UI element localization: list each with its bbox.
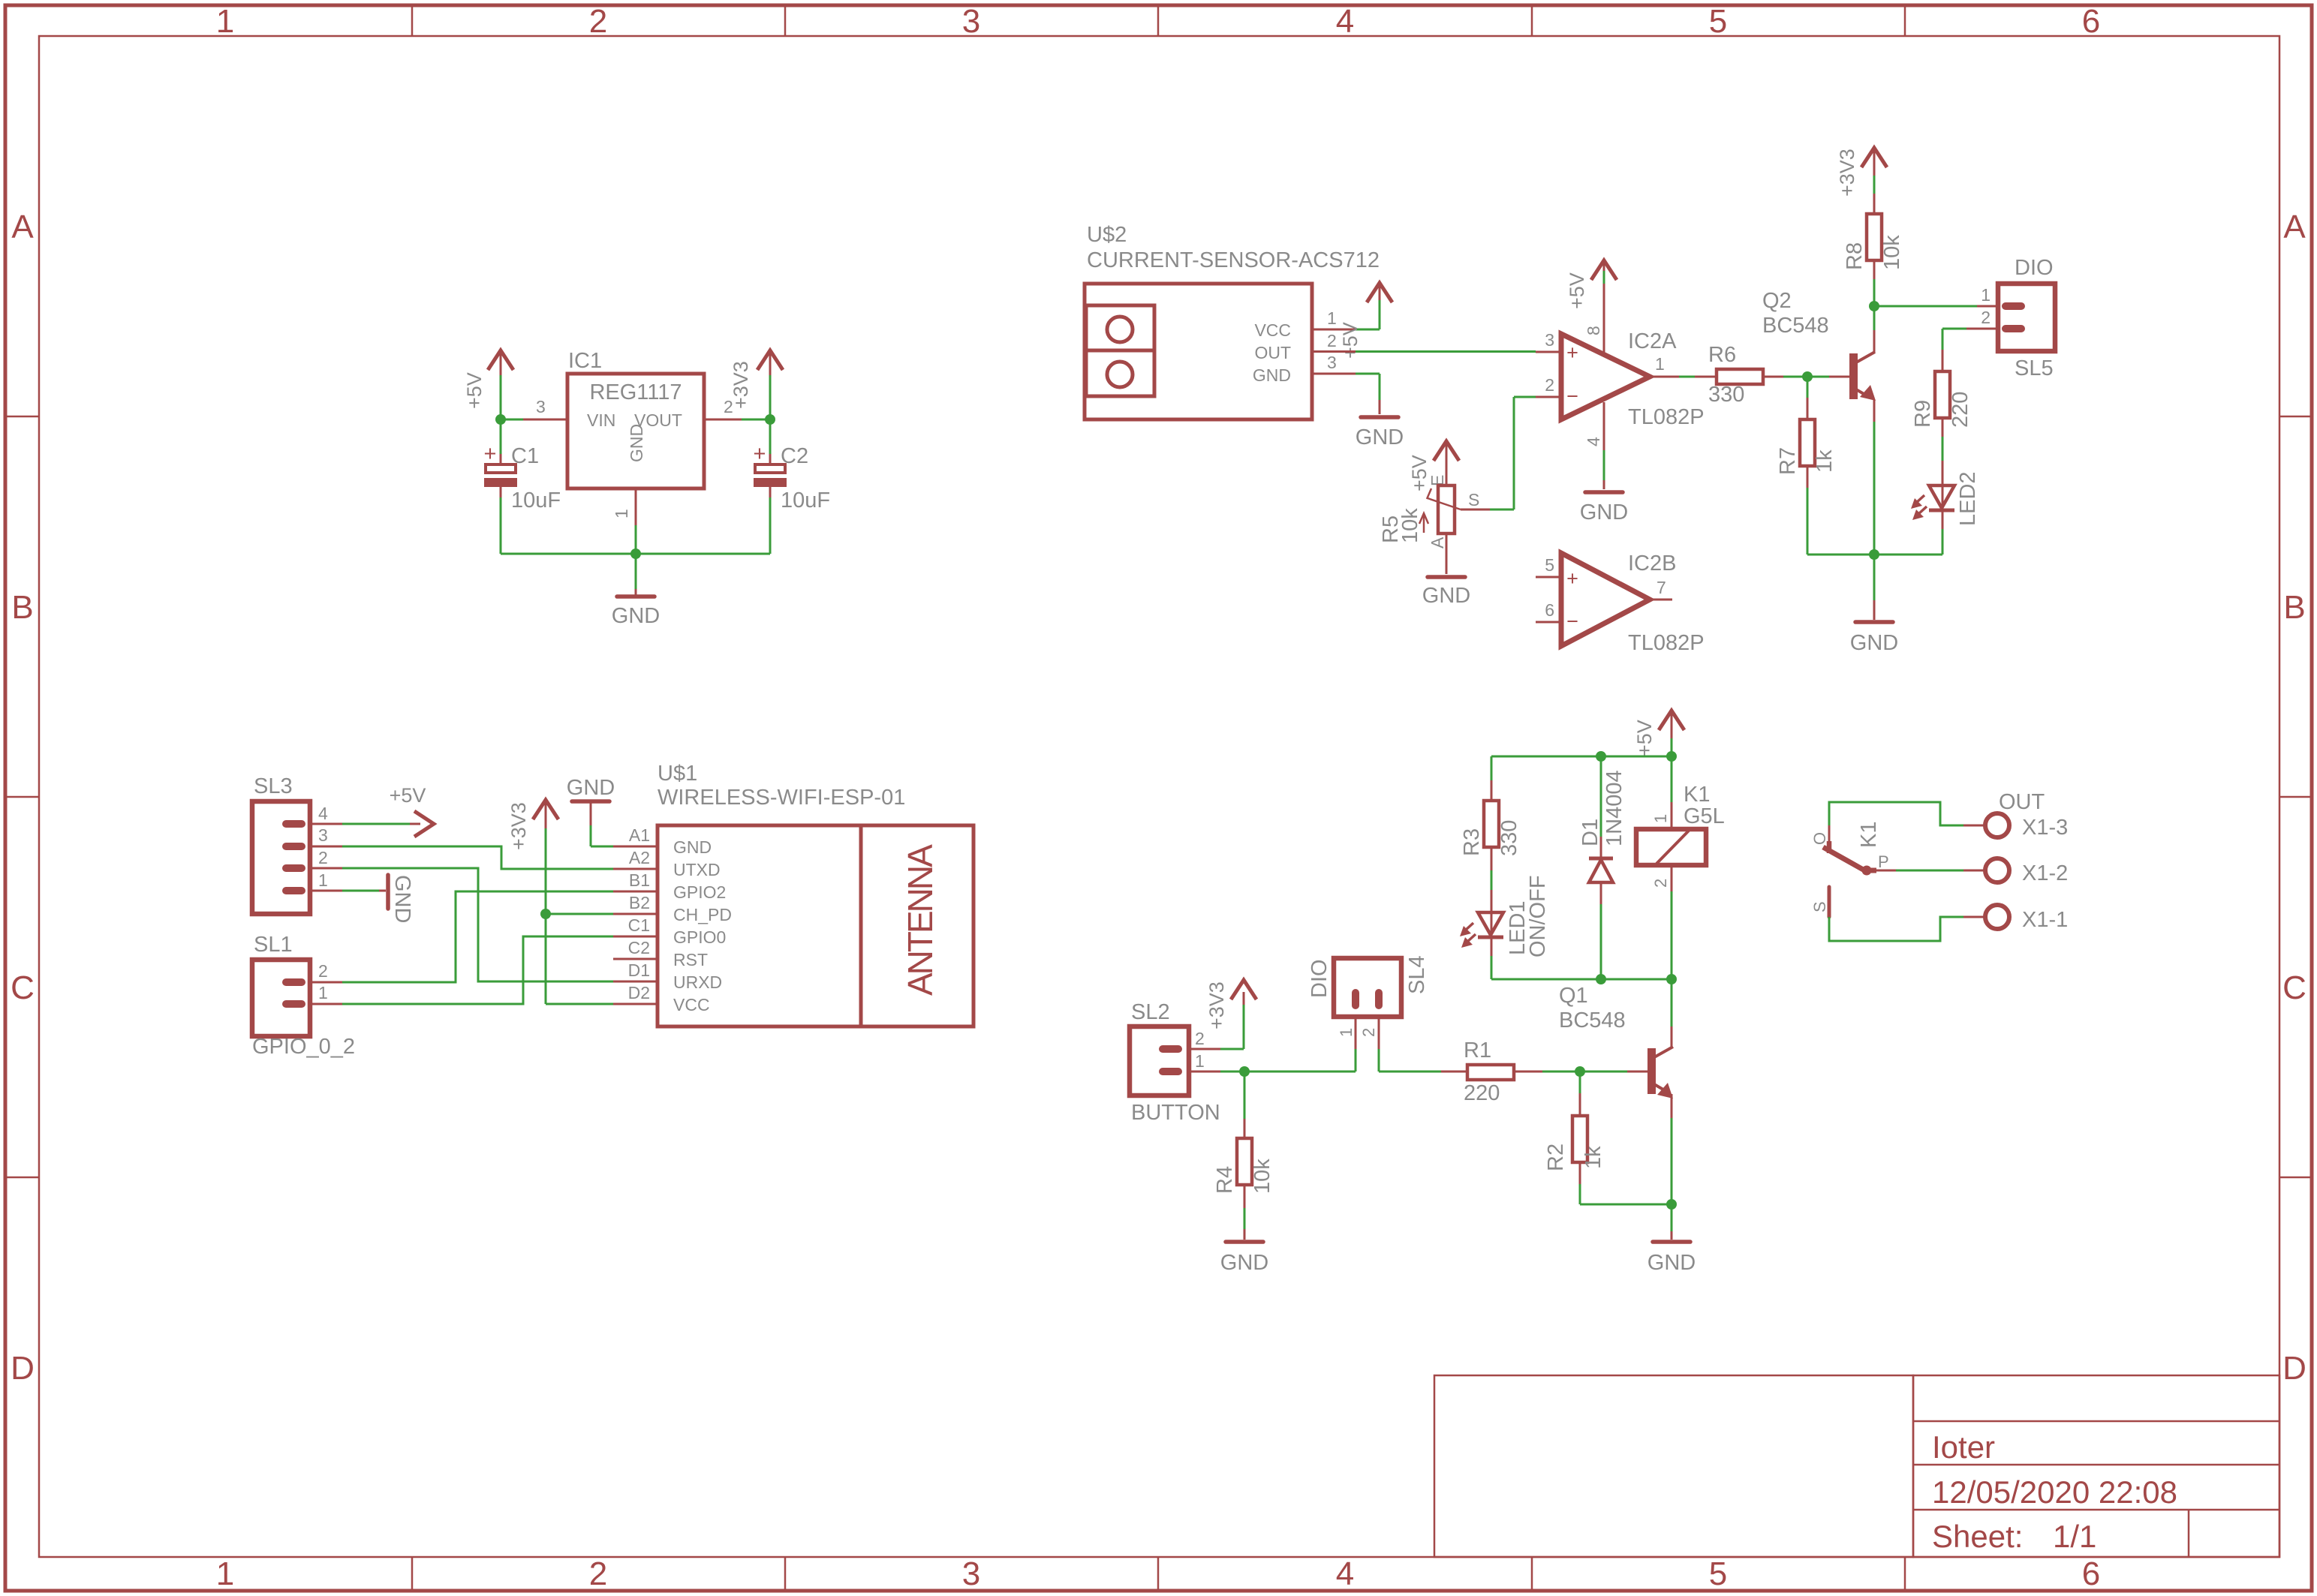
node button net [1239,1066,1250,1077]
ground symbol (IC2A) [1585,490,1623,494]
svg-text:5: 5 [1545,555,1554,575]
diode D1 1N4004 [1589,756,1613,979]
svg-text:GND: GND [627,424,646,462]
node rail/K1 [1666,751,1677,762]
wire SL3 pin4 to +5V arrow [310,823,420,825]
svg-text:B: B [2283,589,2305,626]
svg-text:K1: K1 [1684,783,1710,807]
svg-text:SL1: SL1 [254,933,293,957]
node emitter/R7/LED2 [1869,549,1879,560]
ground symbol (Q1) [1653,1204,1690,1242]
frame column ticks top [412,7,1905,36]
pad X1-3 [1985,813,2009,837]
svg-text:ON/OFF: ON/OFF [1526,875,1550,957]
wire SL4 pin2 down to button net [1378,1017,1380,1072]
svg-text:1N4004: 1N4004 [1602,770,1626,846]
op-amp IC2B triangle [1561,553,1650,646]
LED LED1 [1460,912,1503,979]
wire node to SL5 pin1 [1874,305,1998,308]
wire +5V to node [500,375,502,419]
svg-text:3: 3 [1545,330,1554,350]
op-amp IC2A triangle [1561,334,1650,419]
connector SL3 [252,801,310,914]
pin stub D2 [613,1003,657,1005]
svg-text:2: 2 [1195,1029,1205,1048]
pad X1-1 [1985,905,2009,929]
resistor R7 [1800,377,1815,555]
wire button net to R1 [1244,1071,1356,1073]
pin IC2B 7 stub [1650,599,1672,601]
terminal block of U$2 [1086,305,1154,396]
svg-text:C2: C2 [781,444,808,468]
wire SL3 pin3 to ESP A2 [310,846,613,869]
svg-text:IC2B: IC2B [1628,552,1676,576]
pin stub A1 [613,846,657,848]
svg-text:OUT: OUT [1254,343,1291,362]
svg-text:S: S [1810,901,1829,912]
wire node to Q2 base [1807,376,1849,378]
svg-text:1: 1 [1981,285,1991,305]
pin names GND..VCC [673,837,732,1014]
supply +5V arrow (R5) [1434,441,1459,469]
svg-text:1: 1 [318,870,328,890]
ground symbol (Q2) [1855,555,1893,622]
ground symbol (IC1) [617,554,654,597]
svg-text:+3V3: +3V3 [730,361,752,409]
frame column ticks bottom [412,1557,1905,1589]
svg-text:3: 3 [318,825,328,845]
svg-text:1: 1 [1655,354,1665,374]
svg-text:GND: GND [1422,584,1470,608]
pin stub C2 [613,958,657,960]
svg-text:6: 6 [1545,600,1554,620]
svg-text:GND: GND [1253,365,1291,385]
wire +3V3 to node [769,375,772,419]
svg-text:R4: R4 [1213,1166,1237,1194]
svg-text:10k: 10k [1880,235,1904,270]
node R6/Q2/R7 [1802,371,1813,382]
LED LED2 [1911,485,1954,555]
svg-text:X1-1: X1-1 [2022,908,2068,932]
frame column numbers top [216,3,2100,40]
svg-text:4: 4 [318,804,328,823]
pin IC2B 5 stub [1536,576,1561,579]
svg-text:GPIO_0_2: GPIO_0_2 [252,1035,355,1059]
ground symbol (R4) [1226,1240,1263,1244]
svg-text:UTXD: UTXD [673,860,721,879]
svg-text:2: 2 [1327,331,1337,350]
wire SL2 pin2 to +3V3 [1189,992,1244,1049]
svg-text:330: 330 [1708,383,1744,407]
wire SL4 pin1 down to button net [1355,1017,1357,1072]
svg-text:C2: C2 [628,938,650,957]
resistor R2 [1572,1072,1587,1204]
svg-text:10k: 10k [1398,508,1422,543]
svg-text:2: 2 [589,1555,607,1592]
svg-text:A1: A1 [629,825,650,845]
svg-text:10uF: 10uF [511,488,561,512]
svg-text:1: 1 [1195,1051,1205,1071]
svg-text:SL5: SL5 [2015,356,2054,380]
op IC1 REG1117 box [567,374,704,488]
wire +5V rail [1491,738,1672,756]
wire IC2A pin8 to +5V [1603,263,1605,353]
wire IC1 pin1 down [635,488,637,554]
svg-text:2: 2 [589,3,607,40]
wire node to IC1 pin3 [501,419,567,421]
node R8/Q2/SL5 [1869,301,1879,311]
svg-text:Sheet:: Sheet: [1932,1519,2023,1554]
potentiometer R5 [1419,459,1461,574]
svg-text:A: A [11,209,34,245]
svg-text:4: 4 [1336,3,1354,40]
svg-text:R1: R1 [1464,1038,1491,1062]
pin stub C1 [613,936,657,938]
module U$1 box [657,825,973,1026]
capacitor C1 [484,419,517,554]
resistor R4 [1237,1072,1252,1240]
supply +3V3 arrow (IC1 output) [757,350,783,375]
svg-text:IC1: IC1 [568,349,602,373]
supply +5V arrow (IC2A) [1591,260,1617,280]
wire SL3 pin1 to ground [310,890,386,892]
svg-text:OUT: OUT [1999,790,2045,814]
svg-text:1k: 1k [1813,449,1837,473]
title block frame [1434,1375,2279,1557]
svg-text:3: 3 [1327,353,1337,372]
svg-text:1: 1 [216,1555,234,1592]
resistor R1 [1467,1065,1514,1080]
frame column numbers bottom [216,1555,2100,1592]
svg-text:1: 1 [1327,308,1337,328]
wire SL1 pin2 to ESP B1 [310,891,613,982]
svg-text:3: 3 [962,3,980,40]
svg-text:1: 1 [1337,1028,1356,1037]
svg-text:6: 6 [2082,1555,2100,1592]
svg-text:B2: B2 [629,893,650,912]
svg-text:12/05/2020 22:08: 12/05/2020 22:08 [1932,1474,2177,1510]
resistor R9 [1935,371,1950,485]
node emitter/R2 [1666,1199,1677,1210]
svg-text:GND: GND [1220,1251,1268,1275]
svg-text:220: 220 [1948,392,1972,428]
svg-text:C1: C1 [628,915,650,935]
svg-text:BC548: BC548 [1762,314,1829,338]
node rail/D1 [1596,751,1606,762]
svg-text:GND: GND [1647,1251,1696,1275]
svg-text:DIO: DIO [2015,256,2054,280]
svg-text:+: + [484,442,497,466]
svg-text:+5V: +5V [1633,720,1656,756]
pin stub A2 [613,868,657,870]
wire Q1 emitter down [1671,1118,1673,1204]
svg-text:GND: GND [1580,500,1628,524]
node +3V3/B2 [540,909,551,919]
transistor Q1 BC548 [1647,1026,1673,1118]
supply +3V3 arrow (R8) [1861,148,1887,176]
switch contact O terminal [1829,802,1985,853]
svg-text:10uF: 10uF [781,488,830,512]
wire SL2 pin1 to node [1189,1071,1244,1073]
sensor U$2 box [1085,284,1312,419]
pin designators A1..D2 [628,825,650,1002]
svg-text:VCC: VCC [673,995,710,1014]
wire Q2 emitter down [1873,422,1876,555]
svg-text:GND: GND [1850,631,1898,655]
transistor Q2 BC548 [1849,330,1876,422]
pin stub D1 [613,981,657,983]
svg-text:2: 2 [1651,879,1670,888]
svg-text:CURRENT-SENSOR-ACS712: CURRENT-SENSOR-ACS712 [1087,248,1380,272]
wire LED1 bottom rail [1491,978,1672,981]
svg-text:TL082P: TL082P [1628,405,1705,429]
wire SL4 pin2 net to R1 [1379,1071,1467,1073]
node GND bus [630,549,641,559]
resistor R8 [1867,176,1882,306]
wire R1 to node [1514,1071,1580,1073]
ground symbol (ESP A1, inverted) [572,801,613,846]
wire IC1 pin2 to node [704,419,770,421]
svg-text:BC548: BC548 [1559,1008,1626,1032]
pin IC2B 6 stub [1536,621,1561,624]
wire R2 bottom to emitter node [1580,1204,1672,1206]
svg-text:330: 330 [1497,820,1521,856]
relay K1 coil [1636,756,1706,979]
wire Q2 collector to node R8 [1873,306,1876,330]
svg-text:+5V: +5V [463,372,486,409]
svg-text:D1: D1 [1578,819,1602,846]
svg-text:C1: C1 [511,444,539,468]
pin stub B2 [613,913,657,915]
connector SL5 DIO [1998,284,2055,351]
svg-text:R7: R7 [1776,447,1800,475]
svg-text:SL3: SL3 [254,774,293,798]
supply +3V3 arrow (ESP) [533,800,558,828]
connector SL2 [1130,1026,1189,1096]
svg-text:ANTENNA: ANTENNA [901,844,940,996]
svg-text:SL2: SL2 [1131,1000,1170,1024]
svg-text:3: 3 [962,1555,980,1592]
resistor R6 [1717,369,1807,384]
svg-text:TL082P: TL082P [1628,631,1705,655]
svg-text:5: 5 [1709,3,1727,40]
svg-text:R6: R6 [1708,343,1736,367]
svg-text:2: 2 [318,848,328,867]
svg-text:GND: GND [1356,425,1404,449]
svg-text:GND: GND [390,875,414,923]
svg-text:Q1: Q1 [1559,984,1588,1008]
svg-text:GND: GND [612,604,660,628]
svg-text:G5L: G5L [1684,804,1725,828]
svg-text:VIN: VIN [587,410,615,430]
switch contact S terminal [1829,887,1985,941]
svg-text:D: D [11,1350,35,1387]
svg-text:1: 1 [216,3,234,40]
svg-text:+: + [754,442,766,466]
svg-text:−: − [1566,610,1578,633]
svg-text:1/1: 1/1 [2053,1519,2096,1554]
resistor R3 [1484,756,1499,912]
wire SL5 pin2 to R9 [1942,329,1998,371]
svg-text:B1: B1 [629,870,650,890]
svg-text:R8: R8 [1843,242,1867,270]
svg-text:+3V3: +3V3 [1836,149,1858,197]
svg-text:Q2: Q2 [1762,289,1792,313]
connector SL1 [252,960,310,1036]
svg-text:S: S [1468,490,1479,509]
svg-text:+5V: +5V [390,784,426,807]
wire ground bus under IC1 [501,553,770,555]
node rail2/K1 [1666,974,1677,984]
wire R7 bottom rail [1807,554,1942,556]
wire U$2 OUT to IC2A pin3 [1312,350,1561,353]
wire U$2 GND to ground [1312,374,1380,414]
svg-text:1: 1 [612,509,631,518]
svg-text:7: 7 [1657,578,1666,597]
svg-text:2: 2 [1545,375,1554,395]
svg-text:+3V3: +3V3 [1205,981,1228,1029]
wire IC2A pin2 to R5 wiper [1461,397,1561,509]
supply +5V arrow (IC1 input) [488,350,513,375]
svg-text:U$2: U$2 [1087,223,1127,247]
pad X1-2 [1985,858,2009,882]
connector SL4 DIO [1334,958,1401,1017]
svg-text:GPIO0: GPIO0 [673,927,726,947]
svg-text:R3: R3 [1460,828,1484,856]
wire IC2A output pin1 [1650,376,1717,378]
svg-text:−: − [1566,385,1578,407]
svg-text:U$1: U$1 [657,762,697,786]
svg-text:GND: GND [673,837,712,857]
supply +5V arrow right-pointing [414,811,434,837]
svg-text:1: 1 [1651,814,1670,823]
svg-text:RST: RST [673,950,708,969]
wire IC2A pin4 to ground [1603,402,1605,489]
svg-text:DIO: DIO [1307,959,1332,998]
svg-text:2: 2 [1359,1028,1378,1037]
svg-text:4: 4 [1584,437,1603,446]
node VOUT/C2 [765,414,775,425]
svg-text:D1: D1 [628,960,650,980]
pin stub B1 [613,891,657,893]
node +5V/C1/pin3 [495,414,506,425]
ground symbol (U$2) [1361,415,1398,419]
svg-text:+: + [1566,567,1578,590]
svg-text:6: 6 [2082,3,2100,40]
svg-text:LED2: LED2 [1956,471,1980,526]
svg-text:O: O [1810,832,1829,845]
svg-text:1: 1 [318,983,328,1002]
svg-text:P: P [1878,852,1889,871]
svg-text:IC2A: IC2A [1628,329,1677,353]
svg-text:B: B [11,589,33,626]
svg-text:10k: 10k [1250,1159,1274,1194]
svg-text:VCC: VCC [1254,320,1291,340]
svg-text:4: 4 [1336,1555,1354,1592]
svg-text:WIRELESS-WIFI-ESP-01: WIRELESS-WIFI-ESP-01 [657,786,905,810]
svg-text:K1: K1 [1857,822,1881,848]
svg-text:2: 2 [1981,308,1991,327]
frame row letters right [2282,209,2306,1387]
supply +3V3 arrow (SL2) [1231,980,1256,999]
svg-text:SL4: SL4 [1405,955,1429,994]
svg-text:C: C [11,969,35,1006]
svg-text:A: A [1428,537,1447,549]
capacitor C2 [754,419,787,554]
svg-text:D: D [2282,1350,2306,1387]
svg-text:BUTTON: BUTTON [1131,1101,1220,1125]
supply +5V arrow (relay rail) [1659,711,1684,738]
svg-text:X1-2: X1-2 [2022,861,2068,885]
svg-text:D2: D2 [628,983,650,1002]
frame row letters left [11,209,35,1387]
svg-text:8: 8 [1584,326,1603,335]
ground symbol (R5) [1428,575,1465,579]
wire +3V3 to ESP B2 and D2 [546,828,613,1004]
wire SL3 pin2 to ESP D1 [310,868,613,981]
svg-text:URXD: URXD [673,972,722,992]
switch K1 moving contact [1823,847,1872,876]
wire SL1 pin1 to ESP C1 [310,936,613,1004]
svg-text:CH_PD: CH_PD [673,905,732,924]
svg-text:R2: R2 [1544,1144,1568,1171]
supply +5V arrow (U$2) [1367,283,1392,302]
wire Q1 collector up to rail [1671,979,1673,1026]
svg-text:GND: GND [567,776,615,800]
svg-text:R9: R9 [1911,400,1935,428]
svg-text:220: 220 [1464,1081,1500,1105]
svg-text:+5V: +5V [1339,322,1362,359]
node R1/R2/Q1 [1575,1066,1585,1077]
svg-text:1k: 1k [1581,1146,1605,1169]
svg-text:A: A [2283,209,2306,245]
svg-text:3: 3 [536,397,546,416]
svg-text:C: C [2282,969,2306,1006]
frame row ticks right [2279,416,2310,1177]
wire node to Q1 base [1580,1071,1647,1073]
svg-text:X1-3: X1-3 [2022,816,2068,840]
svg-text:5: 5 [1709,1555,1727,1592]
ground symbol (SL3, rotated) [386,875,390,909]
svg-text:REG1117: REG1117 [589,380,682,404]
node rail2/D1 [1596,974,1606,984]
switch pole P wire [1866,868,1985,873]
wire U$2 VCC to +5V [1312,286,1380,329]
frame row ticks left [7,416,39,1177]
svg-text:A2: A2 [629,848,650,867]
svg-text:+3V3: +3V3 [507,802,530,850]
svg-text:+5V: +5V [1566,272,1588,309]
svg-text:+: + [1566,341,1578,364]
svg-text:2: 2 [318,961,328,981]
svg-text:GPIO2: GPIO2 [673,882,726,902]
svg-text:Ioter: Ioter [1932,1429,1995,1465]
